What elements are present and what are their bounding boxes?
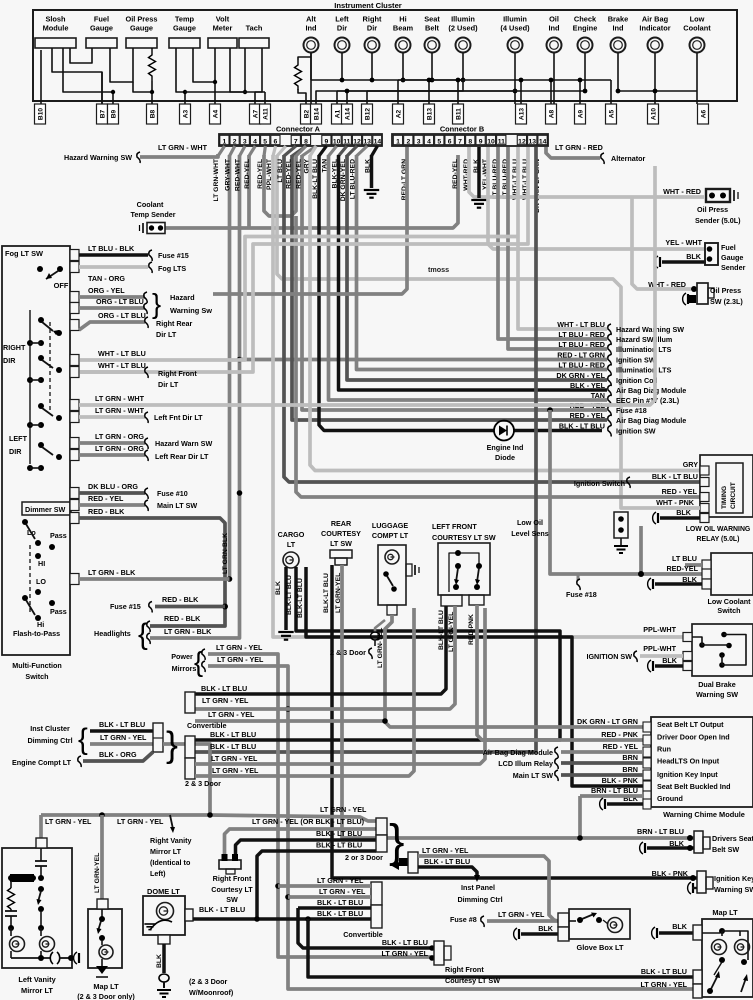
svg-text:Ind: Ind — [612, 24, 624, 33]
2&3 door tap connector on luggage wire — [375, 620, 385, 632]
svg-text:3: 3 — [243, 138, 247, 145]
switch stub y=443 — [70, 438, 79, 449]
pin tag B12 — [362, 104, 373, 124]
resistor in oil press gauge lead — [149, 48, 156, 81]
svg-text:Beam: Beam — [393, 24, 414, 33]
svg-text:LT GRN - YEL: LT GRN - YEL — [45, 817, 92, 826]
pin tag A5 — [606, 104, 617, 124]
pin tag A10 — [648, 104, 659, 124]
wire BLK-LT BLU (ignition switch) to timing circuit — [284, 155, 700, 482]
svg-text:A8: A8 — [549, 109, 556, 118]
svg-text:3: 3 — [417, 138, 421, 145]
svg-text:DK BLU - ORG: DK BLU - ORG — [88, 482, 138, 491]
svg-text:B7: B7 — [100, 109, 107, 118]
svg-text:A3: A3 — [183, 109, 190, 118]
pin tag B9 — [108, 104, 119, 124]
svg-text:LT BLU: LT BLU — [672, 554, 697, 563]
svg-text:LT BLU - BLK: LT BLU - BLK — [88, 244, 135, 253]
wire BLK to fuel gauge sender — [662, 260, 706, 264]
wire BLK-LT BLU to bottom bus to map lt — [308, 919, 693, 977]
pin tag B14 — [311, 104, 322, 124]
svg-text:TIMING: TIMING — [721, 486, 728, 509]
switch stub y=579 — [70, 574, 79, 585]
svg-text:LT GRN-BLK: LT GRN-BLK — [222, 533, 229, 574]
svg-text:Fuse #15: Fuse #15 — [158, 251, 189, 260]
wire jog below connector A — [284, 146, 296, 156]
svg-text:A5: A5 — [609, 109, 616, 118]
svg-text:Air Bag Diag Module: Air Bag Diag Module — [616, 386, 686, 395]
svg-text:Flash-to-Pass: Flash-to-Pass — [13, 629, 60, 638]
svg-text:Ignition Key: Ignition Key — [714, 874, 753, 883]
svg-text:Left): Left) — [150, 869, 166, 878]
svg-text:BLK-YEL: BLK-YEL — [332, 159, 339, 188]
Low Coolant Switch box — [711, 553, 753, 595]
svg-text:A4: A4 — [213, 109, 220, 118]
svg-text:B14: B14 — [314, 108, 321, 120]
svg-text:RED - YEL: RED - YEL — [603, 742, 639, 751]
svg-text:Drivers Seat: Drivers Seat — [712, 834, 753, 843]
svg-text:Fog LTS: Fog LTS — [158, 264, 186, 273]
svg-text:Hazard: Hazard — [170, 293, 195, 302]
wire RED-YEL to Air Bag Diag Module row — [292, 155, 607, 420]
svg-text:YEL - WHT: YEL - WHT — [665, 238, 702, 247]
wire RED-YEL to chime (Run) — [561, 750, 643, 754]
wire LT GRN-YEL down to left vanity mirror — [39, 815, 43, 838]
svg-text:Warning Chime Module: Warning Chime Module — [663, 810, 745, 819]
svg-text:2: 2 — [233, 138, 237, 145]
svg-text:LT GRN - YEL: LT GRN - YEL — [100, 733, 147, 742]
svg-text:Engine Ind: Engine Ind — [487, 443, 524, 452]
svg-text:6: 6 — [274, 138, 278, 145]
svg-text:LT GRN - WHT: LT GRN - WHT — [158, 143, 208, 152]
svg-text:Gauge: Gauge — [721, 253, 743, 262]
wire jog below connector A — [292, 146, 306, 156]
wire LT BLU-BLK to Fuse #15 — [79, 253, 148, 257]
svg-text:13: 13 — [529, 138, 537, 145]
svg-text:DOME LT: DOME LT — [147, 887, 180, 896]
wire LT GRN-WHT to Left Fnt Dir LT — [79, 415, 145, 419]
wire BLK-LT BLU down from dome junction to right front courtesy sw — [298, 908, 434, 948]
svg-text:A2: A2 — [396, 109, 403, 118]
svg-text:RED-YEL: RED-YEL — [257, 159, 264, 189]
svg-text:BLK - ORG: BLK - ORG — [99, 750, 137, 759]
wire BLK from dome down to 2&3 door w/moonroof — [162, 944, 166, 973]
svg-text:Low Oil: Low Oil — [517, 518, 543, 527]
wire BLK-YEL to Air Bag Diag Module row — [339, 155, 608, 390]
svg-text:LOW OIL WARNING: LOW OIL WARNING — [686, 526, 751, 533]
svg-text:Fuel: Fuel — [94, 15, 109, 24]
svg-text:Hazard SW Illum: Hazard SW Illum — [616, 335, 672, 344]
wire LT GRN-YEL from inst panel connector to glove box — [418, 856, 558, 921]
svg-text:Air Bag Diag Module: Air Bag Diag Module — [483, 748, 553, 757]
svg-text:Dir LT: Dir LT — [156, 330, 177, 339]
svg-text:Left Vanity: Left Vanity — [18, 975, 56, 984]
svg-text:LT GRN-YEL: LT GRN-YEL — [94, 853, 101, 893]
svg-text:LT GRN - YEL: LT GRN - YEL — [498, 910, 545, 919]
svg-text:Illumination LTS: Illumination LTS — [616, 345, 672, 354]
switch stub y=372 — [70, 367, 79, 378]
svg-text:LT GRN-WHT: LT GRN-WHT — [213, 158, 220, 201]
svg-text:LT GRN - YEL: LT GRN - YEL — [216, 643, 263, 652]
pin tag B2 — [301, 104, 312, 124]
svg-text:COURTESY LT SW: COURTESY LT SW — [432, 533, 496, 542]
svg-text:Warning SW: Warning SW — [696, 690, 738, 699]
wire jog below connector A — [277, 146, 286, 156]
svg-text:TAN: TAN — [591, 391, 605, 400]
svg-text:LT BLU - RED: LT BLU - RED — [558, 330, 605, 339]
svg-text:RELAY (5.0L): RELAY (5.0L) — [697, 536, 740, 543]
switch stub y=360 — [70, 355, 79, 366]
svg-text:Fuse #8: Fuse #8 — [450, 915, 477, 924]
wire BLK-LT BLU 2or3 door row3 — [236, 840, 377, 854]
svg-text:Level Sens: Level Sens — [511, 529, 549, 538]
svg-text:Brake: Brake — [608, 15, 629, 24]
wire LT GRN-YEL from courtesy sw to Convertible group — [195, 606, 455, 709]
svg-text:14: 14 — [539, 138, 547, 145]
svg-text:IGNITION SW: IGNITION SW — [586, 652, 632, 661]
svg-text:BLK-LT BLU: BLK-LT BLU — [297, 578, 304, 618]
svg-text:Dir LT: Dir LT — [158, 380, 179, 389]
svg-text:Diode: Diode — [495, 453, 515, 462]
svg-text:W/Moonroof): W/Moonroof) — [189, 988, 234, 997]
svg-text:Alt: Alt — [306, 15, 316, 24]
wire BLK to drivers seat belt sw — [647, 846, 694, 850]
wire jog below connector A — [302, 146, 316, 156]
svg-text:PPL-WHT: PPL-WHT — [643, 625, 676, 634]
wire BLK to low coolant switch — [655, 582, 702, 586]
wire LT GRN-YEL (or BLK-LT BLU) — [225, 829, 377, 854]
wire WHT-LT BLU branch left to multifunction switch (outer) — [80, 237, 518, 361]
pin tag A13 — [516, 104, 527, 124]
svg-text:LT GRN - YEL: LT GRN - YEL — [641, 980, 688, 989]
svg-text:RED-YEL: RED-YEL — [452, 159, 459, 189]
svg-text:BLK - YEL: BLK - YEL — [570, 381, 606, 390]
2&3 Door group (lower) connector — [185, 736, 195, 758]
svg-text:8: 8 — [468, 138, 472, 145]
svg-text:Tach: Tach — [246, 24, 263, 33]
wire BLK to glove box — [521, 932, 558, 936]
wire DK BLU-ORG to Fuse #10 — [79, 491, 145, 495]
svg-text:BLK: BLK — [365, 159, 372, 173]
svg-text:A11: A11 — [263, 108, 270, 120]
vanity switch arm — [38, 886, 44, 892]
svg-text:Multi-Function: Multi-Function — [12, 661, 62, 670]
svg-text:ORG - LT BLU: ORG - LT BLU — [96, 297, 144, 306]
svg-text:Seat Belt LT Output: Seat Belt LT Output — [657, 720, 724, 729]
svg-text:10: 10 — [333, 138, 341, 145]
svg-text:Map LT: Map LT — [712, 908, 738, 917]
wire BLK-LT BLU from cargo to 2&3 door group row1 — [195, 567, 560, 740]
wire BRN to chime — [561, 761, 643, 765]
svg-text:BLK - PNK: BLK - PNK — [652, 869, 689, 878]
svg-text:Ignition Switch: Ignition Switch — [574, 479, 625, 488]
vanity bulbs — [10, 928, 12, 936]
svg-text:11: 11 — [498, 138, 505, 145]
wire BLK-LT BLU from rear courtesy to ignition key warning sw — [332, 565, 697, 878]
switch stub y=505 — [70, 500, 79, 511]
Warning Chime Module box — [651, 717, 753, 807]
svg-text:TAN - ORG: TAN - ORG — [88, 274, 125, 283]
pin tag B13 — [424, 104, 435, 124]
switch stub y=417 — [70, 412, 79, 423]
svg-text:LT BLU - RED: LT BLU - RED — [558, 340, 605, 349]
svg-text:Right Rear: Right Rear — [156, 319, 193, 328]
wire jog below connector A — [273, 146, 276, 156]
svg-text:BLK - LT BLU: BLK - LT BLU — [316, 841, 362, 850]
wire ORG-LT BLU to Hazard Warning Sw — [79, 306, 145, 310]
svg-text:LT GRN - YEL: LT GRN - YEL — [211, 754, 258, 763]
switch stub y=297 — [70, 292, 79, 303]
svg-text:BLK - LT BLU: BLK - LT BLU — [201, 684, 247, 693]
wire BLK-LT BLU to dimming connector — [90, 729, 153, 733]
svg-text:Warning SW: Warning SW — [714, 885, 753, 894]
svg-text:Coolant: Coolant — [683, 24, 711, 33]
svg-text:Mirrors: Mirrors — [172, 664, 197, 673]
svg-text:BLK - LT BLU: BLK - LT BLU — [316, 829, 362, 838]
wire DK GRN-YEL to Ignition Coil row — [347, 155, 607, 380]
svg-text:B2: B2 — [304, 109, 311, 118]
svg-text:LT GRN - YEL: LT GRN - YEL — [320, 805, 367, 814]
wire jog below connector A — [319, 146, 326, 156]
svg-text:RED-YEL: RED-YEL — [244, 159, 251, 189]
svg-text:LT GRN - WHT: LT GRN - WHT — [95, 406, 145, 415]
svg-text:Oil Press: Oil Press — [125, 15, 157, 24]
svg-text:B11: B11 — [456, 108, 463, 120]
pin tag A3 — [180, 104, 191, 124]
svg-text:Pass: Pass — [50, 531, 67, 540]
svg-text:ORG - YEL: ORG - YEL — [88, 286, 125, 295]
wire LT BLU-RED to Illumination LTS row — [357, 155, 608, 370]
svg-text:LT GRN - YEL: LT GRN - YEL — [317, 876, 364, 885]
wire LT GRN-YEL down to map lt (2&3 door) — [100, 815, 104, 899]
wire LT GRN-WHT long light to right side — [79, 166, 655, 405]
fog switch contacts — [37, 266, 43, 272]
svg-text:LT GRN - ORG: LT GRN - ORG — [95, 444, 144, 453]
switch stub y=405 — [70, 400, 79, 411]
svg-text:GRY: GRY — [683, 460, 699, 469]
svg-text:Left Rear Dir LT: Left Rear Dir LT — [155, 452, 209, 461]
pin tag A8 — [546, 104, 557, 124]
wire BLK to ground under connector A — [370, 155, 374, 188]
2 or 3 Door group — [210, 815, 376, 821]
svg-text:Seat: Seat — [424, 15, 440, 24]
svg-text:LT GRN - YEL: LT GRN - YEL — [382, 949, 429, 958]
svg-text:Right Front: Right Front — [158, 369, 197, 378]
svg-text:RED-YEL: RED-YEL — [296, 159, 303, 189]
Right Front Courtesy LT SW (lower) connector — [429, 945, 435, 951]
svg-text:RED - YEL: RED - YEL — [88, 494, 124, 503]
pin tag B7 — [97, 104, 108, 124]
svg-text:BLK - LT BLU: BLK - LT BLU — [99, 720, 145, 729]
svg-text:LT GRN - YEL: LT GRN - YEL — [117, 817, 164, 826]
svg-text:Connector B: Connector B — [440, 125, 484, 134]
svg-text:Hi: Hi — [399, 15, 406, 24]
svg-text:LCD Illum Relay: LCD Illum Relay — [498, 759, 553, 768]
svg-text:LT GRN - BLK: LT GRN - BLK — [164, 627, 212, 636]
svg-text:RED - YEL: RED - YEL — [662, 487, 698, 496]
right dir switch contacts — [38, 317, 44, 323]
vanity left branch resistor and capacitor — [10, 881, 12, 888]
svg-text:BLK: BLK — [538, 924, 554, 933]
Dual Brake Warning SW box — [692, 624, 753, 676]
svg-text:BRN: BRN — [622, 753, 638, 762]
svg-text:LT BLU: LT BLU — [277, 159, 284, 183]
svg-text:BLK - LT BLU: BLK - LT BLU — [210, 730, 256, 739]
svg-text:DIR: DIR — [9, 447, 22, 456]
svg-text:HeadLTS On Input: HeadLTS On Input — [657, 757, 720, 766]
Timing circuit box (Low Oil Warning Relay) — [700, 455, 753, 517]
svg-text:BLK - PNK: BLK - PNK — [602, 776, 639, 785]
wire RED-YEL to Fuse 18 row — [302, 155, 607, 410]
svg-text:Switch: Switch — [717, 606, 740, 615]
pin tag B11 — [453, 104, 464, 124]
Fog LT SW / multifunction switch outer box — [2, 246, 70, 655]
Right Front Courtesy LT SW (upper) — [219, 860, 241, 869]
svg-text:RED - YEL: RED - YEL — [570, 411, 606, 420]
wire LT GRN-YEL from dimming connector down to vanity/dome feed — [163, 744, 210, 815]
ground under Connector B — [471, 200, 486, 208]
wire LT GRN-YEL convertible-lower row1 — [278, 884, 371, 888]
wire LT GRN-YEL convertible-lower row2 — [288, 895, 371, 899]
svg-text:WHT - LT BLU: WHT - LT BLU — [98, 349, 146, 358]
wire BLK-LT BLU convertible-lower row3 — [298, 906, 371, 910]
svg-text:BLK: BLK — [686, 252, 702, 261]
wire LT GRN-WHT to Hazard Warning SW (left) — [140, 154, 218, 157]
svg-text:LT GRN - YEL: LT GRN - YEL — [422, 846, 469, 855]
svg-text:Left: Left — [335, 15, 349, 24]
svg-text:BRN: BRN — [622, 765, 638, 774]
svg-text:RED-PNK: RED-PNK — [468, 614, 475, 645]
svg-text:B9: B9 — [111, 109, 118, 118]
svg-text:12: 12 — [518, 138, 526, 145]
svg-text:5: 5 — [263, 138, 267, 145]
dual brake warning sw internals — [699, 642, 705, 648]
wire LT GRN-YEL from luggage to warning chime — [385, 615, 643, 727]
svg-text:LT GRN - YEL: LT GRN - YEL — [208, 710, 255, 719]
Inst Panel Dimming Ctrl connector — [392, 858, 408, 870]
svg-text:Ind: Ind — [305, 24, 317, 33]
resistor at Alt Ind lamp — [295, 60, 302, 90]
svg-text:Engine: Engine — [573, 24, 598, 33]
svg-text:BLK - LT BLU: BLK - LT BLU — [382, 938, 428, 947]
arrow to Right Vanity Mirror LT — [170, 815, 173, 829]
svg-text:RED - BLK: RED - BLK — [162, 595, 199, 604]
svg-text:DK GRN - LT GRN: DK GRN - LT GRN — [577, 717, 638, 726]
svg-text:Ind: Ind — [548, 24, 560, 33]
map lt internals — [702, 932, 720, 934]
svg-text:13: 13 — [363, 138, 371, 145]
svg-text:Fuse #18: Fuse #18 — [616, 406, 647, 415]
turn signal inner box line — [29, 310, 31, 464]
wire RED-BLK from dimmer to fuse15/headlights — [79, 518, 225, 626]
svg-text:A7: A7 — [253, 109, 260, 118]
svg-text:BLK-LT BLU: BLK-LT BLU — [286, 575, 293, 615]
svg-text:Ignition SW: Ignition SW — [616, 356, 656, 365]
svg-text:COURTESY: COURTESY — [321, 529, 361, 538]
wire BLK to ground under Connector B — [477, 147, 481, 198]
svg-text:SW: SW — [226, 895, 238, 904]
svg-text:CIRCUIT: CIRCUIT — [730, 482, 737, 509]
svg-text:LT BLU-RED: LT BLU-RED — [350, 159, 357, 199]
wire BLK-ORG from Engine Compt LT — [83, 752, 153, 761]
svg-text:Gauge: Gauge — [130, 24, 153, 33]
svg-text:Dimming Ctrl: Dimming Ctrl — [457, 895, 502, 904]
svg-text:Run: Run — [657, 745, 671, 754]
svg-text:LUGGAGE: LUGGAGE — [372, 521, 409, 530]
svg-text:RIGHT: RIGHT — [3, 343, 26, 352]
svg-text:A1: A1 — [335, 109, 342, 118]
svg-text:RED - PNK: RED - PNK — [601, 730, 639, 739]
wire BLK-LT BLU 2or3 door row4 — [257, 851, 376, 919]
wire WHT-LT BLU to Hazard Warning SW row — [518, 147, 607, 329]
pin tag A6 — [698, 104, 709, 124]
instrument cluster box — [33, 10, 737, 101]
svg-text:Sender (5.0L): Sender (5.0L) — [695, 216, 741, 225]
pin tag A2 — [393, 104, 404, 124]
svg-text:BLK-LT BLU: BLK-LT BLU — [312, 159, 319, 199]
svg-text:2 or 3 Door: 2 or 3 Door — [345, 853, 383, 862]
svg-text:9: 9 — [325, 138, 329, 145]
wire LT GRN-YEL power mirror 1 — [208, 654, 434, 957]
svg-text:Courtesy LT SW: Courtesy LT SW — [445, 976, 500, 985]
svg-text:Courtesy LT: Courtesy LT — [211, 885, 253, 894]
svg-text:BLK - LT BLU: BLK - LT BLU — [317, 909, 363, 918]
svg-text:8: 8 — [304, 138, 308, 145]
svg-text:LT GRN - ORG: LT GRN - ORG — [95, 432, 144, 441]
Convertible group (lower) — [371, 882, 382, 905]
svg-text:GRY: GRY — [304, 159, 311, 174]
svg-text:LT GRN - YEL: LT GRN - YEL — [319, 887, 366, 896]
wire WHT-LT BLU branch (inner) — [80, 147, 528, 372]
svg-text:BLK: BLK — [156, 954, 163, 968]
svg-text:LT GRN - YEL: LT GRN - YEL — [212, 766, 259, 775]
svg-text:BLK - LT BLU: BLK - LT BLU — [424, 857, 470, 866]
svg-text:Hazard Warn SW: Hazard Warn SW — [155, 439, 212, 448]
switch stub y=255 — [70, 250, 79, 261]
wire RED-YEL A4 drop to coolant link — [247, 155, 251, 228]
wire jog below connector A — [310, 146, 316, 156]
svg-text:BLK - LT BLU: BLK - LT BLU — [559, 422, 605, 431]
svg-text:A14: A14 — [345, 108, 352, 120]
svg-text:12: 12 — [353, 138, 361, 145]
wire RED-YEL junction to Fuse 18 and Low Coolant Switch — [547, 407, 553, 413]
svg-text:Belt SW: Belt SW — [712, 845, 739, 854]
svg-text:Coolant: Coolant — [137, 200, 164, 209]
svg-text:Illumin: Illumin — [451, 15, 475, 24]
svg-text:BLK - LT BLU: BLK - LT BLU — [652, 472, 698, 481]
svg-text:Indicator: Indicator — [639, 24, 670, 33]
svg-text:Fuel: Fuel — [721, 243, 736, 252]
wire RED-PNK from courtesy sw to warning chime — [477, 605, 643, 740]
svg-text:LT: LT — [287, 540, 296, 549]
svg-text:B13: B13 — [427, 108, 434, 120]
svg-text:A10: A10 — [651, 108, 658, 120]
wire LT GRN-YEL from rear courtesy to drivers seat belt sw — [342, 565, 694, 838]
svg-text:LT GRN - RED: LT GRN - RED — [555, 143, 603, 152]
svg-text:LEFT: LEFT — [9, 434, 28, 443]
svg-text:2 & 3 Door: 2 & 3 Door — [330, 648, 366, 657]
wire jog below connector A — [347, 146, 357, 156]
svg-text:14: 14 — [374, 138, 382, 145]
svg-text:Sender: Sender — [721, 263, 746, 272]
wire WHT-RED to Oil Press Sender 5.0L — [469, 147, 704, 197]
Left Vanity Mirror LT box — [2, 848, 72, 968]
svg-text:Low Coolant: Low Coolant — [707, 597, 751, 606]
svg-text:Dir: Dir — [367, 24, 377, 33]
svg-text:Map LT: Map LT — [93, 982, 119, 991]
pin tag A1 — [332, 104, 343, 124]
wire YEL-WHT to Fuel Gauge Sender — [488, 147, 705, 249]
